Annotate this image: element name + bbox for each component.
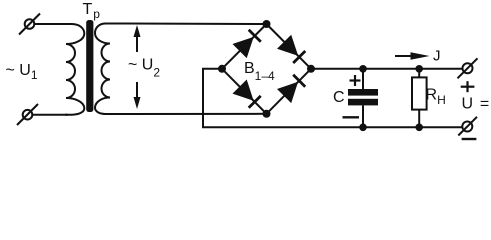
wire bridge right (plus rail) to output [311,68,463,70]
diode D3 (left to bottom, lower-left arm) [222,69,267,114]
terminal bottom-right (output -) [458,117,477,136]
diode D4 (bottom to right, lower-right arm) [267,69,312,114]
node dot bridge bottom [263,110,271,118]
wire bridge left (minus) down to bottom rail [203,69,462,128]
wire top-left to primary [34,23,68,25]
wire secondary bottom to bridge bottom [112,113,267,115]
diode D1 (lower-left corner to top, upper-left arm) [222,24,267,69]
terminal top-right (output +) [458,58,478,78]
node dot resistor bottom [415,124,423,132]
transformer primary winding [65,24,84,115]
output plus sign [461,81,475,92]
node dot bridge right [307,65,315,73]
node dot resistor top [415,65,423,73]
wire secondary top to bridge top [112,23,267,26]
node dot capacitor top [359,65,367,73]
wire bottom-left to primary [32,114,68,116]
current arrow J [395,52,430,59]
svg-text:J: J [433,48,441,65]
terminal top-left (input) [19,14,40,35]
resistor RH [412,69,427,128]
terminal bottom-left (input) [17,104,38,125]
svg-text:U =: U = [462,96,491,113]
svg-text:C: C [333,89,345,106]
node dot capacitor bottom [359,124,367,132]
output minus bar [462,138,477,140]
diode D2 (top to right, upper-right arm) [267,24,312,69]
capacitor C (electrolytic) [348,69,378,128]
node dot bridge left [218,65,226,73]
capacitor minus sign [343,116,360,118]
transformer secondary winding [95,24,113,115]
voltage arrow U2 (double-headed, vertical) [134,25,141,109]
node dot bridge top [263,20,271,28]
transformer core [86,20,93,112]
capacitor plus sign [350,75,361,86]
